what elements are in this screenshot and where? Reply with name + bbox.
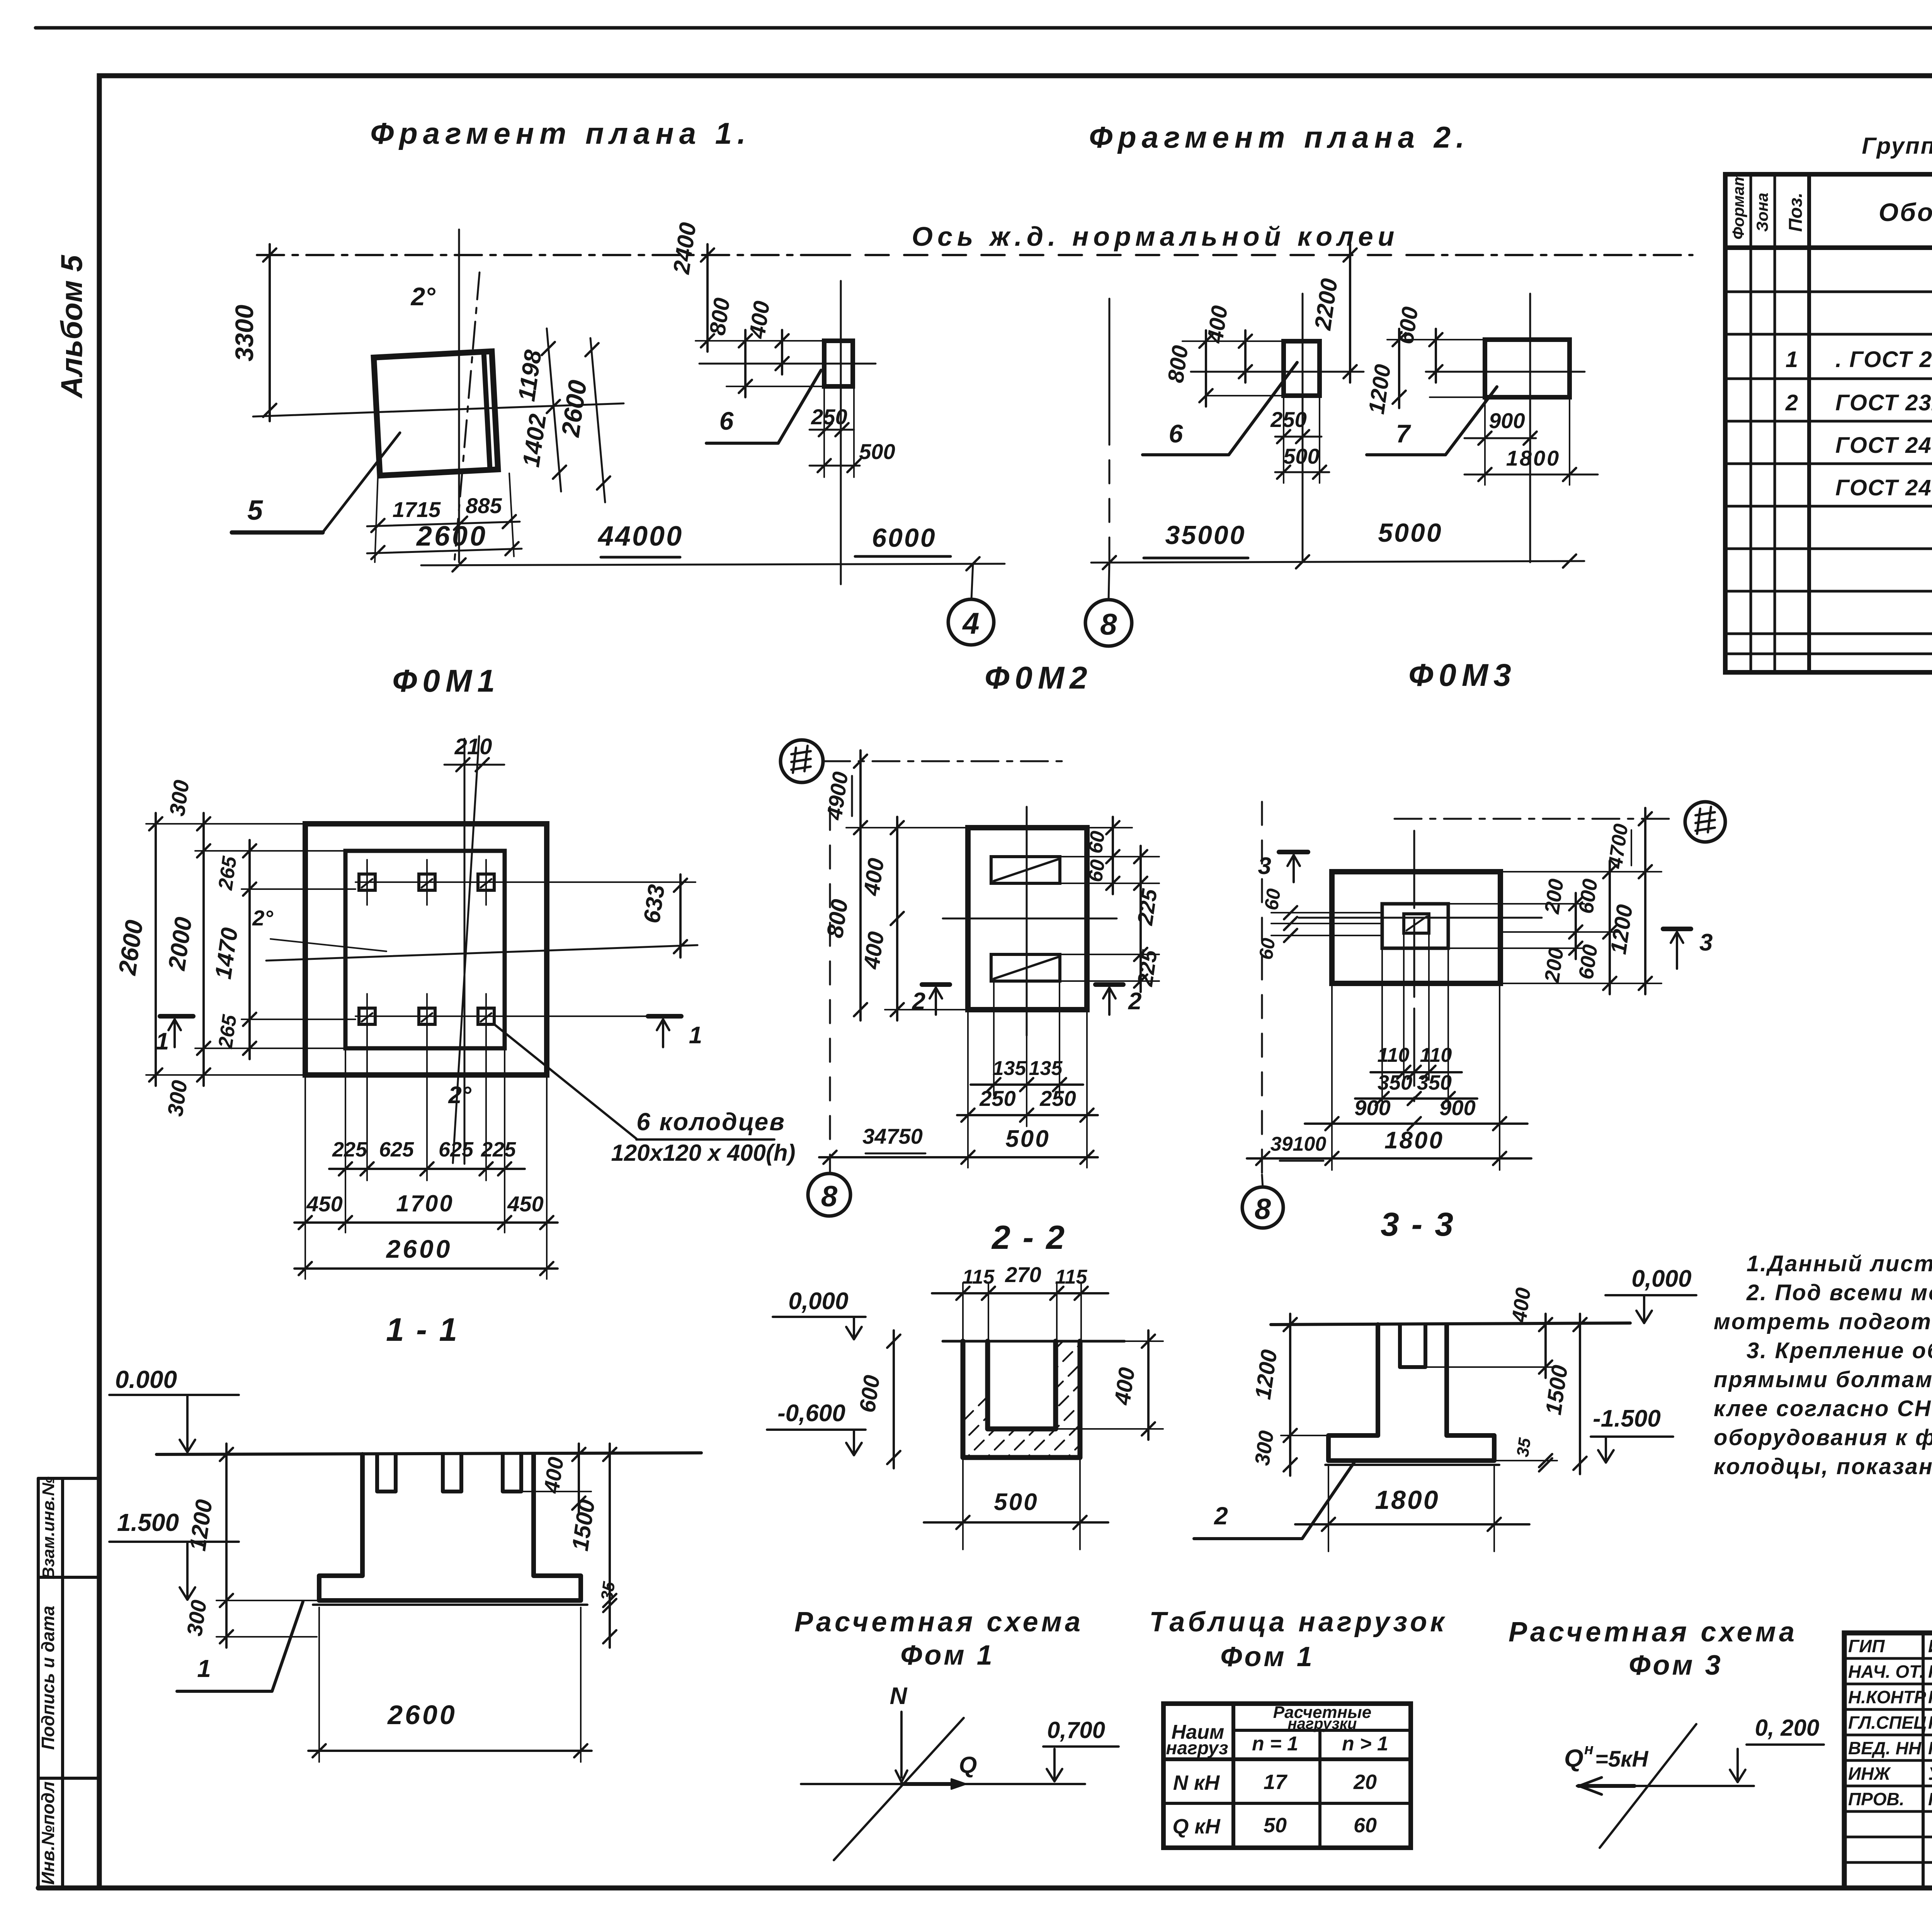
svg-text:. ГОСТ 23279-85: . ГОСТ 23279-85 xyxy=(1835,347,1932,372)
loads table outer xyxy=(1163,1704,1411,1848)
title block signature rows xyxy=(1844,1657,1932,1660)
svg-text:250: 250 xyxy=(1270,407,1306,432)
FOM2 rect centerline horizontal xyxy=(699,363,876,365)
FOM2 bottom dim 250 250 xyxy=(957,1114,1098,1116)
dim 900 plan2 xyxy=(1464,437,1536,439)
svg-text:400: 400 xyxy=(745,299,775,340)
svg-text:120x120 x 400(h): 120x120 x 400(h) xyxy=(611,1140,795,1166)
svg-text:Зона: Зона xyxy=(1753,193,1771,232)
3-3 dim 1800 bottom xyxy=(1295,1523,1529,1526)
section mark 2 left xyxy=(922,982,950,987)
svg-text:1 - 1: 1 - 1 xyxy=(386,1311,459,1348)
2-2 dim 600 xyxy=(893,1330,895,1468)
FOM1 left dim 2600 xyxy=(155,813,157,1086)
svg-text:Ф0М2: Ф0М2 xyxy=(985,660,1093,696)
spec table row lines xyxy=(1725,291,1932,293)
svg-text:225: 225 xyxy=(1133,948,1162,988)
ext lines FOM2 plan2 xyxy=(1182,340,1284,342)
FOM2 notch lower xyxy=(991,954,1060,981)
svg-text:900: 900 xyxy=(1439,1095,1475,1120)
svg-text:0,000: 0,000 xyxy=(1631,1265,1691,1292)
svg-text:Обозначение: Обозначение xyxy=(1879,198,1932,226)
svg-text:1.Данный лист см.совместно с л: 1.Данный лист см.совместно с листом 2. xyxy=(1747,1251,1932,1276)
left stamp column boxes xyxy=(38,1478,99,1888)
ext lines FOM2 plan1 xyxy=(696,340,824,342)
dim 210 top xyxy=(444,764,504,766)
svg-text:6 колодцев: 6 колодцев xyxy=(636,1108,786,1136)
svg-text:35000: 35000 xyxy=(1165,520,1246,550)
section mark 3 left xyxy=(1279,850,1308,854)
FOM3 ext lines right xyxy=(1500,871,1662,872)
svg-text:200: 200 xyxy=(1540,878,1568,916)
FOM1 well row line 2 xyxy=(355,1015,672,1017)
loads table verticals xyxy=(1231,1704,1235,1848)
svg-text:Расчетная схема: Расчетная схема xyxy=(794,1607,1083,1638)
svg-text:1: 1 xyxy=(689,1022,702,1049)
svg-text:400: 400 xyxy=(1507,1286,1535,1325)
svg-text:ПАНКРАТОВА: ПАНКРАТОВА xyxy=(1928,1738,1932,1758)
loads table horizontals xyxy=(1233,1729,1411,1732)
FOM2 rect plan2 xyxy=(1284,341,1320,396)
svg-text:8: 8 xyxy=(1255,1193,1271,1226)
skhema fom3 horizontal xyxy=(1577,1785,1754,1787)
svg-text:Фом 1: Фом 1 xyxy=(900,1640,995,1671)
FOM2 detail horizontal centerline xyxy=(943,918,1117,920)
svg-text:34750: 34750 xyxy=(862,1124,923,1148)
svg-text:885: 885 xyxy=(466,493,502,518)
skhema fom1 horizontal line xyxy=(801,1783,1085,1785)
svg-text:Групповая спецификация для: Групповая спецификация для монолитных эл… xyxy=(1862,133,1932,159)
svg-text:Подпись и дата: Подпись и дата xyxy=(38,1606,58,1750)
skhema fom1 diagonal xyxy=(834,1718,964,1860)
axis circle 4 xyxy=(971,564,973,600)
2-2 dim 400 right xyxy=(1147,1330,1150,1440)
dim 2200 xyxy=(1349,244,1351,383)
svg-text:Фрагмент плана 1.: Фрагмент плана 1. xyxy=(370,116,751,150)
FOM1 left dim 2000 300 300 xyxy=(202,813,205,1086)
svg-text:60: 60 xyxy=(1084,830,1109,855)
svg-text:0, 200: 0, 200 xyxy=(1755,1715,1820,1741)
FOM1 bottom dim 450 1700 450 xyxy=(294,1221,558,1224)
svg-text:250: 250 xyxy=(1039,1086,1076,1111)
1-1 ext bottom xyxy=(318,1607,320,1762)
svg-text:1800: 1800 xyxy=(1384,1127,1444,1154)
svg-text:500: 500 xyxy=(994,1489,1038,1515)
svg-text:500: 500 xyxy=(859,439,895,464)
svg-text:РАШЕВСКИЙ: РАШЕВСКИЙ xyxy=(1928,1687,1932,1707)
svg-text:17: 17 xyxy=(1264,1770,1288,1794)
2-2 top dims 115 270 115 xyxy=(932,1292,1108,1294)
svg-text:n > 1: n > 1 xyxy=(1342,1733,1388,1755)
svg-text:Н.КОНТР: Н.КОНТР xyxy=(1848,1687,1926,1707)
FOM2 plan2 vertical centerline xyxy=(1302,294,1304,562)
svg-text:8: 8 xyxy=(1100,607,1117,641)
skhema fom1 N arrow xyxy=(900,1712,903,1777)
column axis vertical xyxy=(458,230,460,562)
svg-text:ГОСТ 24379.1-80: ГОСТ 24379.1-80 xyxy=(1835,433,1932,458)
bottom dim line 35000 5000 xyxy=(1091,561,1584,563)
svg-text:3 - 3: 3 - 3 xyxy=(1381,1206,1455,1243)
FOM3 detail vertical centerline xyxy=(1413,831,1415,1101)
svg-text:225: 225 xyxy=(332,1138,367,1161)
leader 6 kolodcev xyxy=(494,1024,636,1139)
FOM2 rect centerline vertical xyxy=(840,281,842,584)
svg-text:250: 250 xyxy=(811,405,847,429)
1-1 notches xyxy=(377,1454,396,1492)
FOM3 bottom dim 110 110 xyxy=(1371,1071,1462,1073)
svg-text:Q: Q xyxy=(1564,1744,1583,1772)
svg-text:оборудования к фундаментам: оборудования к фундаментам болтами, заде… xyxy=(1714,1425,1932,1450)
dim 500 plan1 xyxy=(810,465,860,467)
FOM2 detail axis8 vertical xyxy=(829,807,831,1173)
svg-text:110: 110 xyxy=(1378,1044,1410,1066)
svg-text:ВЕД. НН: ВЕД. НН xyxy=(1848,1738,1922,1758)
spec table header bottom xyxy=(1725,245,1932,250)
svg-text:Фрагмент плана 2.: Фрагмент плана 2. xyxy=(1089,120,1470,154)
svg-text:Формат: Формат xyxy=(1729,172,1747,240)
svg-text:Фом 1: Фом 1 xyxy=(1220,1641,1315,1672)
svg-text:600: 600 xyxy=(1574,878,1602,915)
svg-text:Q кН: Q кН xyxy=(1172,1815,1220,1838)
leader 6 plan2 xyxy=(1143,362,1297,455)
svg-text:прямыми болтами, соединенными: прямыми болтами, соединенными с бетоном … xyxy=(1714,1367,1932,1392)
svg-text:нагруз: нагруз xyxy=(1166,1738,1228,1759)
svg-text:44000: 44000 xyxy=(597,521,683,552)
ext lines FOM3 plan2 xyxy=(1387,339,1485,340)
FOM3 bottom dim 1800 39100 xyxy=(1247,1157,1531,1160)
svg-text:2. Под всеми монолитными желез: 2. Под всеми монолитными железобетонными… xyxy=(1746,1280,1932,1305)
svg-text:350: 350 xyxy=(1417,1071,1452,1094)
top rule of sheet xyxy=(36,26,1932,30)
dim 400 plan1 xyxy=(781,330,783,374)
ext verticals FOM3 plan2 xyxy=(1484,397,1486,485)
svg-text:300: 300 xyxy=(163,1079,192,1118)
FOM3 right dim 200 200 xyxy=(1575,893,1577,959)
svg-text:8: 8 xyxy=(821,1180,838,1213)
axis 8 vertical fragment2 xyxy=(1109,299,1111,422)
svg-text:800: 800 xyxy=(705,296,735,337)
svg-text:35: 35 xyxy=(1513,1437,1534,1458)
dim line 1198 1402 xyxy=(547,328,561,492)
svg-text:1800: 1800 xyxy=(1375,1485,1439,1515)
svg-text:500: 500 xyxy=(1005,1126,1050,1152)
FOM3 plan2 vertical centerline xyxy=(1529,294,1531,562)
svg-text:270: 270 xyxy=(1005,1262,1041,1287)
3-3 dim 1200 300 left xyxy=(1289,1314,1291,1476)
svg-text:60: 60 xyxy=(1354,1814,1377,1837)
ext lines fragment1 square xyxy=(375,475,378,562)
svg-text:500: 500 xyxy=(1283,444,1319,468)
svg-text:3. Крепление оборудования к фу: 3. Крепление оборудования к фундаментам … xyxy=(1747,1338,1932,1363)
svg-text:265: 265 xyxy=(214,855,241,892)
svg-text:900: 900 xyxy=(1489,408,1525,433)
svg-text:2: 2 xyxy=(1214,1502,1228,1530)
FOM1 plan horizontal centerline xyxy=(266,945,697,961)
1-1 podgotovka line xyxy=(313,1604,587,1606)
svg-text:3300: 3300 xyxy=(230,304,259,361)
svg-text:ГОСТ 24379.1-80: ГОСТ 24379.1-80 xyxy=(1835,475,1932,500)
svg-text:300: 300 xyxy=(165,779,194,818)
svg-text:ИНЖ: ИНЖ xyxy=(1848,1764,1891,1784)
svg-text:115: 115 xyxy=(1055,1266,1088,1288)
svg-text:400: 400 xyxy=(1110,1366,1140,1407)
section mark 2 right xyxy=(1095,982,1123,987)
FOM2 notch upper xyxy=(991,857,1060,883)
svg-text:1: 1 xyxy=(156,1028,169,1055)
FOM3 rect plan2 xyxy=(1485,340,1570,397)
svg-text:3: 3 xyxy=(1699,929,1713,956)
svg-text:ПАНКРАТОВА: ПАНКРАТОВА xyxy=(1928,1789,1932,1809)
svg-text:ГИП: ГИП xyxy=(1848,1636,1885,1656)
1-1 dim 1200 300 xyxy=(225,1444,228,1648)
svg-text:ГОСТ 23279-85: ГОСТ 23279-85 xyxy=(1835,390,1932,415)
svg-text:N кН: N кН xyxy=(1173,1771,1220,1794)
FOM2 detail axis dashdot xyxy=(823,760,1070,762)
svg-text:1700: 1700 xyxy=(396,1190,454,1216)
FOM3 right dim 1200 4700 xyxy=(1644,808,1646,994)
FOM2 bottom dim 135 135 xyxy=(971,1083,1083,1086)
3-3 dim 1500 right xyxy=(1579,1314,1581,1474)
svg-text:4: 4 xyxy=(962,606,979,640)
svg-text:Альбом 5: Альбом 5 xyxy=(54,254,88,398)
FOM3 plan2 horizontal centerline xyxy=(1426,371,1585,373)
dim 2400 xyxy=(706,244,709,352)
FOM2 plan2 horizontal centerline xyxy=(1191,371,1364,373)
svg-text:135: 135 xyxy=(1029,1057,1063,1080)
ext verticals FOM2 plan1 xyxy=(823,386,825,477)
skhema fom3 left arrow xyxy=(1578,1784,1634,1788)
skhema fom3 diagonal xyxy=(1600,1724,1696,1848)
svg-text:1: 1 xyxy=(1786,347,1798,372)
FOM1 bottom dim 225 625 625 225 xyxy=(329,1168,525,1170)
dim 1200 plan2 xyxy=(1398,329,1400,408)
svg-text:60: 60 xyxy=(1255,937,1279,961)
svg-text:1.500: 1.500 xyxy=(117,1509,179,1536)
svg-text:2°: 2° xyxy=(410,282,435,311)
svg-text:1800: 1800 xyxy=(1506,446,1561,470)
skhema fom1 Q arrow xyxy=(951,1779,966,1789)
svg-text:135: 135 xyxy=(993,1057,1027,1080)
svg-text:Ф0М1: Ф0М1 xyxy=(392,663,500,699)
3-3 dim 400 right xyxy=(1544,1314,1547,1378)
dim 1715 885 xyxy=(367,522,520,526)
dim 600 plan2 xyxy=(1435,329,1437,383)
svg-text:0,700: 0,700 xyxy=(1047,1717,1105,1743)
svg-text:-1.500: -1.500 xyxy=(1593,1405,1661,1432)
FOM1 well axis lines xyxy=(366,860,368,905)
svg-text:РЫБКИНА: РЫБКИНА xyxy=(1928,1662,1932,1682)
section mark 1 right xyxy=(648,1014,681,1019)
svg-text:200: 200 xyxy=(1540,946,1568,985)
FOM3 ext lines left small xyxy=(1271,912,1382,913)
FOM3 detail well square xyxy=(1404,914,1429,933)
FOM2 right dim 60 60 xyxy=(1112,817,1114,894)
dim 250 plan1 xyxy=(810,429,854,431)
svg-text:2600: 2600 xyxy=(386,1235,452,1263)
leader 6 plan1 xyxy=(706,370,821,443)
ext verticals FOM2 plan2 xyxy=(1283,396,1284,483)
svg-text:Поз.: Поз. xyxy=(1786,192,1806,232)
svg-text:625: 625 xyxy=(379,1138,414,1161)
FOM3 left dims 60 60 xyxy=(1284,906,1297,919)
dim line 2600 rotated xyxy=(590,338,605,502)
dim 800 plan2 xyxy=(1205,330,1207,406)
svg-text:n = 1: n = 1 xyxy=(1252,1733,1298,1755)
svg-text:Q: Q xyxy=(959,1752,977,1778)
svg-text:УДАЛОВА: УДАЛОВА xyxy=(1928,1764,1932,1784)
FOM2 detail vertical centerline xyxy=(1026,807,1028,1036)
dim 250 plan2 xyxy=(1275,436,1321,438)
svg-text:Фом 3: Фом 3 xyxy=(1629,1650,1723,1681)
svg-text:Таблица нагрузок: Таблица нагрузок xyxy=(1149,1607,1447,1638)
section mark 1 left xyxy=(160,1014,193,1019)
FOM3 bottom ext verticals xyxy=(1381,948,1383,1107)
dim 2600 bottom xyxy=(367,549,522,553)
axis circle 8 FOM3 detail xyxy=(1262,1175,1263,1187)
dim 1800 plan2 xyxy=(1464,474,1598,476)
FOM1 plan outer square xyxy=(305,824,547,1075)
svg-text:5000: 5000 xyxy=(1378,518,1442,548)
dim 400 plan2 xyxy=(1244,330,1247,383)
svg-text:400: 400 xyxy=(539,1456,568,1495)
svg-text:600: 600 xyxy=(855,1374,885,1414)
FOM1 ext lines left xyxy=(146,823,305,825)
1-1 dim 1500 right xyxy=(609,1444,611,1648)
3-3 pedestal xyxy=(1328,1325,1494,1461)
1-1 pedestal xyxy=(319,1454,581,1600)
FOM2 rect plan1 xyxy=(824,341,853,386)
rotated axis 2deg line xyxy=(454,272,480,562)
svg-text:колодцы, показанные на данно: колодцы, показанные на данном листе. xyxy=(1714,1454,1932,1479)
svg-text:210: 210 xyxy=(454,734,492,759)
svg-text:=5кН: =5кН xyxy=(1595,1747,1649,1772)
svg-text:0.000: 0.000 xyxy=(115,1366,177,1393)
3-3 notch xyxy=(1400,1325,1425,1367)
spec table verticals xyxy=(1750,174,1752,672)
FOM1 plan inner square xyxy=(345,851,505,1048)
svg-text:60: 60 xyxy=(1260,887,1285,912)
svg-text:450: 450 xyxy=(507,1192,543,1216)
3-3 ground line xyxy=(1271,1323,1630,1325)
FOM2 ext lines right xyxy=(1060,856,1159,857)
FOM1 plan vertical centerline xyxy=(464,739,466,1164)
1-1 ground line xyxy=(156,1453,701,1454)
dim 800 plan1 xyxy=(744,330,747,397)
svg-text:2 - 2: 2 - 2 xyxy=(991,1219,1066,1256)
svg-text:0,000: 0,000 xyxy=(788,1288,848,1315)
svg-text:клее согласно СН 471-75 пун: клее согласно СН 471-75 пункт 2,4. Допус… xyxy=(1714,1396,1932,1421)
dim 400 400 FOM2 detail xyxy=(896,817,898,1020)
svg-text:НАЧ. ОТ.: НАЧ. ОТ. xyxy=(1848,1662,1924,1682)
FOM1 plan slanted 2deg line xyxy=(453,736,479,1163)
svg-text:мотреть подготовку толщиной 10: мотреть подготовку толщиной 100мм. из бе… xyxy=(1714,1309,1932,1334)
svg-text:300: 300 xyxy=(1250,1429,1278,1467)
2-2 U section outline xyxy=(963,1341,1080,1458)
FOM3 detail axis8 vertical xyxy=(1261,802,1263,1175)
1-1 dim 2600 xyxy=(308,1750,592,1752)
3-3 podgotovka xyxy=(1328,1459,1494,1463)
FOM3 detail rect xyxy=(1332,872,1500,983)
svg-text:ИВАНОВА: ИВАНОВА xyxy=(1928,1636,1932,1656)
svg-text:ПРОВ.: ПРОВ. xyxy=(1848,1789,1905,1809)
svg-text:2: 2 xyxy=(1128,988,1141,1015)
square inner vertical line xyxy=(484,352,490,469)
svg-text:-0,600: -0,600 xyxy=(777,1400,845,1427)
FOM2 detail rect xyxy=(968,828,1087,1010)
railway axis line xyxy=(257,254,827,256)
svg-text:60: 60 xyxy=(1084,858,1109,883)
section mark 3 right xyxy=(1663,927,1691,931)
svg-text:450: 450 xyxy=(306,1192,342,1216)
FOM1 wells xyxy=(359,874,375,890)
2-2 ext top xyxy=(962,1283,964,1341)
FOM3 detail inner rect xyxy=(1382,904,1448,948)
svg-text:600: 600 xyxy=(1574,943,1602,981)
svg-text:2: 2 xyxy=(1785,390,1798,415)
1-1 ext left xyxy=(216,1454,362,1455)
svg-text:800: 800 xyxy=(1163,344,1193,384)
svg-text:6000: 6000 xyxy=(872,523,936,553)
spec table outer xyxy=(1725,174,1932,672)
1-1 dim 400 right xyxy=(578,1444,580,1514)
svg-text:нагрузки: нагрузки xyxy=(1287,1715,1357,1732)
svg-text:6: 6 xyxy=(1169,419,1184,448)
2-2 top edge lines xyxy=(943,1340,1124,1343)
svg-text:ГЛ.СПЕЦ: ГЛ.СПЕЦ xyxy=(1848,1713,1927,1733)
svg-text:Ф0М3: Ф0М3 xyxy=(1408,658,1517,693)
svg-text:400: 400 xyxy=(859,930,889,971)
svg-text:633: 633 xyxy=(639,883,670,925)
FOM3 detail axis dashdot xyxy=(1395,818,1677,820)
svg-text:350: 350 xyxy=(1378,1071,1412,1094)
FOM3 bottom dim 900 900 xyxy=(1305,1122,1527,1125)
FOM3 right dim 600 600 xyxy=(1609,861,1611,994)
svg-text:2600: 2600 xyxy=(387,1700,457,1730)
svg-text:900: 900 xyxy=(1354,1095,1390,1120)
svg-text:800: 800 xyxy=(822,898,853,939)
svg-text:6: 6 xyxy=(719,406,734,435)
bottom dim line 44000 6000 xyxy=(421,564,1005,565)
svg-text:2600: 2600 xyxy=(416,521,488,552)
svg-text:400: 400 xyxy=(1202,304,1233,345)
svg-text:Инв.№подл: Инв.№подл xyxy=(38,1781,58,1884)
svg-text:7: 7 xyxy=(1396,419,1412,448)
FOM1 left dim 265 1470 265 xyxy=(248,840,251,1059)
leader 5 xyxy=(232,531,323,535)
svg-text:225: 225 xyxy=(1133,887,1162,927)
axis circle Sh FOM3 xyxy=(1685,802,1725,842)
FOM3 detail horizontal centerline xyxy=(1299,917,1542,919)
svg-text:39100: 39100 xyxy=(1270,1133,1327,1155)
FOM2 bottom dim 500 34750 xyxy=(819,1156,1098,1158)
2-2 U inner cavity xyxy=(988,1341,1056,1429)
foundation FOM1 plan square xyxy=(374,351,498,476)
svg-text:20: 20 xyxy=(1353,1770,1377,1794)
dim 633 xyxy=(679,874,682,957)
dim 500 plan2 xyxy=(1275,471,1329,473)
svg-text:2°: 2° xyxy=(252,906,273,930)
svg-text:Взам.инв.№: Взам.инв.№ xyxy=(39,1476,58,1579)
svg-text:110: 110 xyxy=(1420,1044,1452,1066)
2-2 dim 500 bottom xyxy=(924,1521,1108,1524)
svg-text:625: 625 xyxy=(439,1138,474,1161)
title block signature columns xyxy=(1922,1633,1925,1888)
svg-text:600: 600 xyxy=(1393,305,1423,346)
svg-text:115: 115 xyxy=(963,1266,995,1288)
FOM3 bottom dim 350 350 xyxy=(1355,1097,1477,1100)
FOM1 well row line 1 xyxy=(355,881,696,883)
dim 3300 vertical xyxy=(269,244,271,421)
